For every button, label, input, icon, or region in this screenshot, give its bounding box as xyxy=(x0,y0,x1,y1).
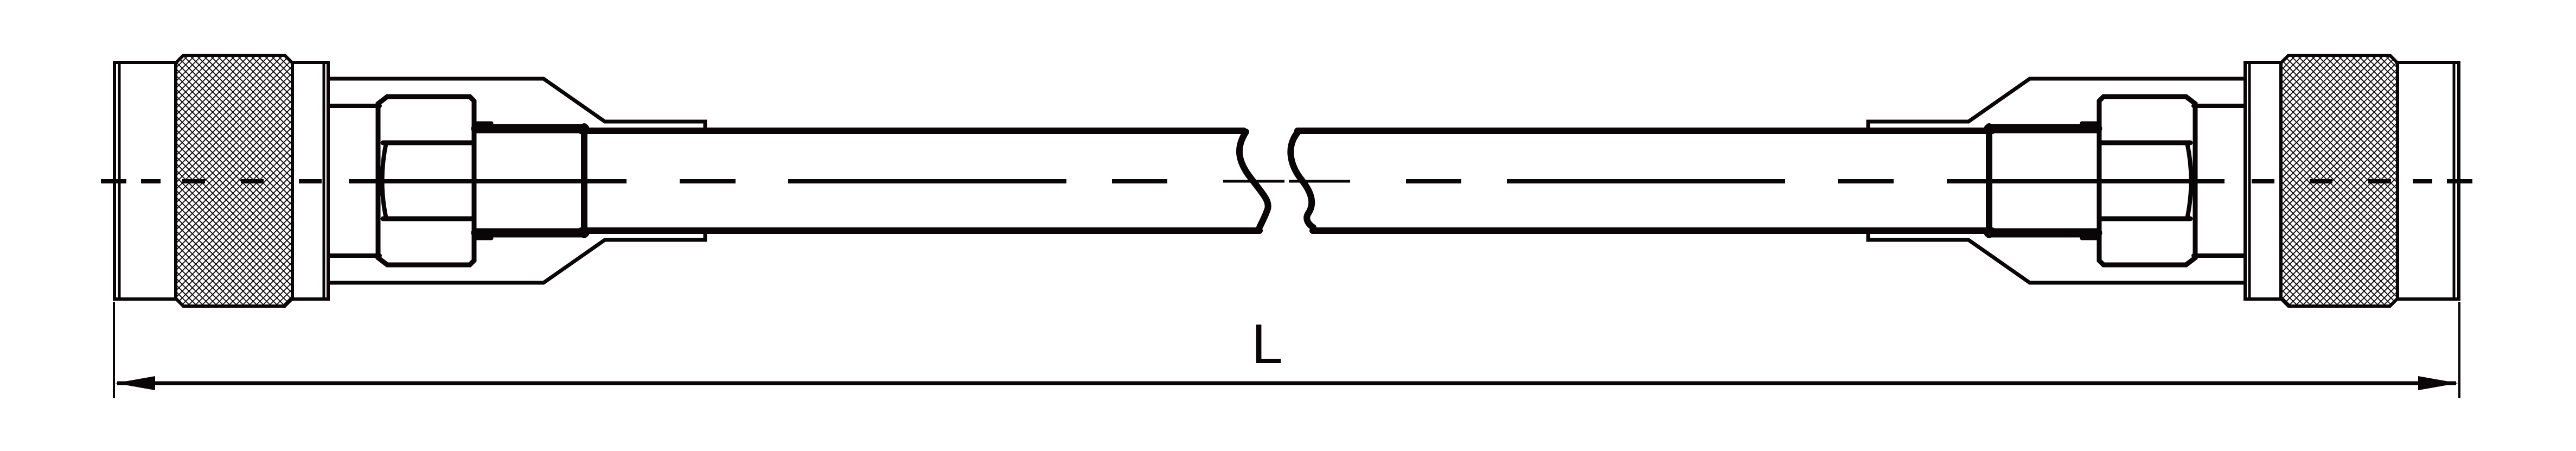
cable right section lower edge xyxy=(1313,227,1992,234)
centerline (dash-dot axis) xyxy=(101,179,2472,183)
right connector (mirrored) xyxy=(1868,55,2459,306)
left arrowhead xyxy=(115,376,155,390)
cable break left squiggle xyxy=(1239,132,1268,227)
left connector xyxy=(114,55,705,306)
cable left section upper edge xyxy=(581,128,1244,134)
left extension line xyxy=(113,302,115,398)
cable right section upper edge xyxy=(1297,128,1992,134)
dimension line xyxy=(117,382,2456,385)
cable break right squiggle xyxy=(1290,132,1313,227)
right extension line xyxy=(2458,302,2460,398)
right arrowhead xyxy=(2418,376,2458,390)
dimension xyxy=(114,302,2459,398)
svg-text:L: L xyxy=(1251,313,1282,375)
cable left section lower edge xyxy=(581,227,1260,234)
